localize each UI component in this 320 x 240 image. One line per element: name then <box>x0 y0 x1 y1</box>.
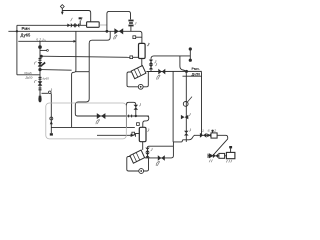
flange stem F1 <box>79 21 81 26</box>
flange pair FP1 <box>39 58 42 60</box>
return riser R173 <box>172 71 174 141</box>
heat exchanger HX2 <box>130 150 145 163</box>
air vent AT1 <box>60 5 64 15</box>
valve V9 on riser VR <box>184 131 189 136</box>
drain cock K1 <box>49 91 52 94</box>
label: SV1 tags <box>154 60 156 66</box>
wire: collector line y=141.9 to row A <box>173 135 194 142</box>
node: inlet junction <box>16 30 18 32</box>
water meter WM2 <box>226 152 235 158</box>
drain spout D1 <box>38 96 41 103</box>
label: branch fraction <box>25 71 33 79</box>
svg-text:≥ 1,2ν: ≥ 1,2ν <box>36 37 47 43</box>
label: V9 tag <box>189 128 190 131</box>
wire: box outlet <box>99 24 107 26</box>
supply riser tap T1 <box>133 36 136 39</box>
node: tap junction dot <box>40 55 43 58</box>
node: header top dot <box>38 45 42 49</box>
valve V10 on DHW2 pipe <box>158 155 165 161</box>
wire: sensor line y=55.9 <box>151 56 190 59</box>
wire: drain line y=135.3 with arrow <box>97 134 131 136</box>
valve V2 on upper pipe <box>75 23 79 28</box>
pressure regulator RD1 <box>128 20 133 27</box>
pressure gauge G1 <box>183 102 188 107</box>
distribution header DV (vertical x=40) <box>39 41 41 95</box>
valve V8 on DHW pipe <box>158 69 165 75</box>
valve V11 row A <box>200 133 207 138</box>
meter box B1 <box>87 22 100 28</box>
wire: upper bypass pipe y=25.3 <box>17 24 87 26</box>
svg-text:Ду50: Ду50 <box>26 75 33 79</box>
DHW pipe y=71.5 <box>146 71 201 135</box>
filter box FB1 <box>219 153 225 158</box>
mud strainer C1 <box>139 43 146 58</box>
label: slope annotation <box>36 37 47 43</box>
wire: C2 to HX2 <box>142 142 144 150</box>
label: V10 handle <box>156 161 160 166</box>
node: header junction dot <box>38 68 41 71</box>
wire: left branch with label <box>17 74 40 76</box>
valve V1 on upper pipe <box>71 23 75 28</box>
svg-text:Рмн.: Рмн. <box>192 67 200 71</box>
wire: arrowhead into riser <box>74 40 77 43</box>
label: valve ticks <box>71 17 83 21</box>
label: CV1 tag <box>189 113 190 116</box>
thermo dumbbell TW1 <box>189 48 191 61</box>
flange pair FP2 <box>39 77 42 79</box>
wire: gauge stub <box>40 49 47 51</box>
svg-text:ду65: ду65 <box>43 77 50 81</box>
cold water row A <box>194 135 228 139</box>
heat exchanger HX1 <box>131 66 146 79</box>
wire: link P1-P2 <box>76 71 89 73</box>
cold water row B <box>208 155 235 157</box>
wire: drain tap with curl <box>42 92 49 94</box>
DHW2 pipe y=157.9 <box>145 142 173 158</box>
HX2 circulation loop <box>127 157 139 172</box>
wire: jog into strainer C2 <box>143 116 149 127</box>
svg-text:2: 2 <box>213 129 216 133</box>
wire: supply inlet pipe y=31.3 <box>8 31 142 43</box>
node: bypass junction <box>106 30 109 33</box>
flange pair FP3 <box>39 88 42 90</box>
wire: diagonal drop to row B <box>213 139 228 156</box>
check valve CV0 on upper pipe <box>67 24 70 28</box>
strainer C2 <box>139 127 146 141</box>
label: SV2 tags <box>151 148 153 151</box>
check valve CV2 row A <box>207 134 211 138</box>
valve V6 on HX2 feed <box>97 113 106 119</box>
orifice marks <box>129 115 132 118</box>
bypass BP2 <box>127 102 136 128</box>
label: row B tags <box>209 160 232 163</box>
wire: SV2 top line y=146.2 <box>148 146 174 147</box>
svg-text:1: 1 <box>202 129 204 133</box>
wire: regulator bypass loop <box>107 11 131 31</box>
gray unit frame <box>46 103 127 139</box>
valve V3 main pipe <box>114 28 123 34</box>
pump PM2 <box>139 169 144 174</box>
node: bypass rejoin <box>135 115 137 117</box>
HX1 circulation loop <box>127 72 138 87</box>
valve V12 row B <box>213 154 218 159</box>
wire: sensor line to strainer <box>41 56 130 57</box>
circulation riser VR <box>180 56 186 142</box>
label: C2 tag <box>147 128 149 131</box>
label: V8 handle <box>157 75 161 80</box>
svg-text:Ду65: Ду65 <box>21 33 32 38</box>
label: regulator tag <box>135 22 136 25</box>
valve V4 on header <box>38 62 43 67</box>
water meter WM1 <box>211 133 217 138</box>
svg-text:б: б <box>208 129 210 133</box>
valve V5 on header <box>38 81 43 86</box>
tap square T3 <box>137 123 140 126</box>
label: V4 handle <box>34 62 36 65</box>
riser P1 <box>72 31 76 127</box>
wire: bottom drain line y=127.4 <box>51 126 135 128</box>
tap square T2 <box>130 56 133 59</box>
inlet arrow A2 <box>208 154 213 158</box>
valve V7 on bypass BP2 <box>134 105 139 110</box>
check valve CV1 <box>181 115 188 119</box>
wire: label block vertical <box>16 25 18 75</box>
label: row A tags <box>202 129 216 133</box>
label: strainer tag <box>147 43 150 46</box>
safety pair SV2 <box>147 147 149 158</box>
safety pair SV1 <box>150 59 152 72</box>
makeup pin M1 <box>50 94 52 134</box>
tap square T4 <box>132 132 135 135</box>
wire: P2 lower descent to HX2 feed <box>75 72 149 116</box>
svg-text:Рмн: Рмн <box>22 26 31 31</box>
label: valve V3 handle <box>114 35 118 40</box>
wire: strainer C1 to HX1 <box>141 59 143 67</box>
label: V5 handle and tag <box>34 77 49 83</box>
lever on V4 <box>41 62 46 67</box>
label: V6 handle <box>96 119 100 124</box>
pump PM1 <box>138 84 143 89</box>
node: DHW junction dot <box>185 70 188 73</box>
wire: header to P1 link <box>40 69 72 72</box>
riser P2 top jog <box>89 31 110 71</box>
wire: label underline y=76.2 <box>183 75 202 77</box>
wire: vent branch to box bypass <box>62 11 90 22</box>
wire: label block bottom line with arrow <box>18 40 74 42</box>
